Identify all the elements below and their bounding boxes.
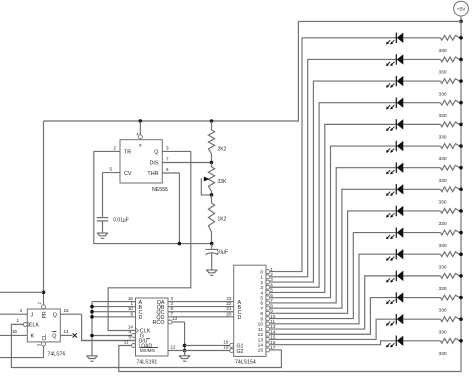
pin out2 74LS154 xyxy=(260,277,273,286)
wire LED13 to resistor xyxy=(403,297,440,299)
wire top rail to left xyxy=(44,21,462,121)
svg-text:330: 330 xyxy=(439,91,447,97)
svg-text:330: 330 xyxy=(439,221,447,227)
resistor R10 330 xyxy=(439,230,462,249)
wire out12 to LED row 13 xyxy=(270,298,397,335)
pin QC 74LS191 to C 74LS154 xyxy=(156,306,241,316)
pin out7 74LS154 xyxy=(260,303,273,312)
junction rail-2K2 xyxy=(210,119,214,123)
LED D13 xyxy=(386,292,403,304)
svg-text:13: 13 xyxy=(258,337,264,343)
resistor R8 330 xyxy=(439,187,462,206)
svg-text:TR: TR xyxy=(124,150,131,156)
svg-text:330: 330 xyxy=(439,48,447,54)
LED D9 xyxy=(386,206,403,218)
svg-text:330: 330 xyxy=(439,178,447,184)
svg-text:15: 15 xyxy=(258,348,264,354)
wire THR drop xyxy=(178,173,180,244)
LED D14 xyxy=(386,314,403,326)
wire PR stub left edge xyxy=(0,291,44,293)
svg-text:20: 20 xyxy=(226,311,232,316)
decoder 74LS154 U4 body xyxy=(234,265,266,356)
pin out5 74LS154 xyxy=(260,293,273,302)
LED D2 xyxy=(386,54,403,66)
junction rail row 14 xyxy=(459,317,463,321)
LED D1 xyxy=(386,33,403,45)
junction rail row 12 xyxy=(459,274,463,278)
counter 74LS191 U3 body xyxy=(136,298,169,356)
svg-text:7: 7 xyxy=(260,306,263,312)
resistor R1 330 xyxy=(439,35,462,54)
pin out15 74LS154 xyxy=(258,345,276,354)
resistor R3 330 xyxy=(439,79,462,98)
svg-text:2K2: 2K2 xyxy=(218,147,227,153)
svg-text:5: 5 xyxy=(128,334,131,339)
wire out4 to LED row 5 xyxy=(270,124,397,292)
junction RCO-G1 xyxy=(183,344,187,348)
wire out6 to LED row 7 xyxy=(270,168,397,303)
wire out8 to LED row 9 xyxy=(270,211,397,313)
svg-text:4: 4 xyxy=(260,290,263,296)
svg-text:1: 1 xyxy=(260,275,263,281)
wire LED4 to resistor xyxy=(403,102,440,104)
svg-text:D: D xyxy=(238,315,242,321)
svg-text:10: 10 xyxy=(258,322,264,328)
svg-text:3: 3 xyxy=(166,146,169,151)
svg-text:CLK: CLK xyxy=(29,323,40,329)
svg-text:6: 6 xyxy=(260,301,263,307)
junction rail row 6 xyxy=(459,144,463,148)
resistor R5 330 xyxy=(439,122,462,141)
junction +5V rail xyxy=(459,20,463,24)
pin TR NE555 xyxy=(94,146,131,156)
ground under C2 xyxy=(97,233,108,238)
svg-text:2: 2 xyxy=(113,146,116,151)
capacitor C1 10uF xyxy=(205,244,228,270)
junction rail row 4 xyxy=(459,101,463,105)
pin 4 bubble on NE555 xyxy=(136,133,142,139)
label NE555 xyxy=(152,187,168,193)
wire LED5 to resistor xyxy=(403,123,440,125)
ground RCO net xyxy=(179,351,190,362)
pin D 74LS191 xyxy=(92,311,143,321)
wire CL to left edge xyxy=(0,346,44,358)
svg-text:LOAD: LOAD xyxy=(139,344,153,350)
wire LED2 to resistor xyxy=(403,58,440,60)
svg-text:14: 14 xyxy=(258,342,264,348)
svg-text:DIS: DIS xyxy=(150,161,159,167)
svg-text:330: 330 xyxy=(439,156,447,162)
pin B 74LS191 xyxy=(92,301,143,311)
wire right +5V rail xyxy=(119,21,461,371)
svg-text:CV: CV xyxy=(124,171,132,177)
svg-text:5: 5 xyxy=(260,296,263,302)
resistor R4 330 xyxy=(439,100,462,119)
pin Q NE555 xyxy=(154,146,191,156)
svg-text:11: 11 xyxy=(258,327,263,333)
power +5V supply xyxy=(454,1,469,16)
potentiometer 33K xyxy=(201,163,227,195)
wire G1 enable xyxy=(185,339,244,349)
svg-text:RCO: RCO xyxy=(153,320,165,326)
resistor R2 330 xyxy=(439,57,462,76)
label 74LS76 xyxy=(48,352,66,358)
wire G2 enable xyxy=(185,345,244,355)
junction THR-TR xyxy=(178,242,182,246)
svg-text:+5V: +5V xyxy=(457,7,466,13)
junction cap10 node xyxy=(210,242,214,246)
wire clock feedback from decoder xyxy=(11,324,281,367)
pin out4 74LS154 xyxy=(260,288,273,297)
wire LED1 to resistor xyxy=(403,37,440,39)
svg-text:330: 330 xyxy=(439,308,447,314)
wire LED15 to resistor xyxy=(403,340,440,342)
LED D12 xyxy=(386,271,403,283)
label 74LS191 xyxy=(137,360,158,366)
svg-text:9: 9 xyxy=(130,311,133,316)
svg-text:330: 330 xyxy=(439,113,447,119)
junction rail row 8 xyxy=(459,188,463,192)
svg-text:14: 14 xyxy=(64,329,70,334)
svg-text:α: α xyxy=(139,143,142,148)
svg-text:11: 11 xyxy=(124,339,129,344)
svg-text:7: 7 xyxy=(166,157,169,162)
wire out1 to LED row 2 xyxy=(270,59,397,276)
wire LED8 to resistor xyxy=(403,188,440,190)
LED D4 xyxy=(386,98,403,110)
svg-text:J: J xyxy=(31,312,34,318)
pin C 74LS191 xyxy=(92,306,143,316)
resistor R14 330 xyxy=(439,317,462,336)
wire LED11 to resistor xyxy=(403,253,440,255)
pin Qbar 74LS76 xyxy=(52,329,72,339)
svg-text:2: 2 xyxy=(260,280,263,286)
pin out14 74LS154 xyxy=(258,340,276,349)
wire out0 to LED row 1 xyxy=(270,38,397,272)
resistor 2K2 xyxy=(208,121,226,163)
svg-text:74LS76: 74LS76 xyxy=(48,352,66,358)
pin RCO 74LS191 xyxy=(153,316,185,326)
resistor R9 330 xyxy=(439,209,462,228)
svg-text:K: K xyxy=(31,334,35,340)
svg-text:12: 12 xyxy=(258,332,264,338)
pin out6 74LS154 xyxy=(260,298,273,307)
svg-text:330: 330 xyxy=(439,200,447,206)
pin out13 74LS154 xyxy=(258,335,276,344)
svg-text:74LS191: 74LS191 xyxy=(137,360,158,366)
resistor R11 330 xyxy=(439,252,462,271)
resistor R15 330 xyxy=(439,338,462,357)
pin out9 74LS154 xyxy=(260,314,276,323)
pin A 74LS191 xyxy=(92,296,143,306)
wire LED6 to resistor xyxy=(403,145,440,147)
LED D15 xyxy=(386,336,403,348)
junction rail row 3 xyxy=(459,79,463,83)
wire out2 to LED row 3 xyxy=(270,81,397,282)
flip-flop 74LS76 U2 body xyxy=(27,309,60,342)
resistor R7 330 xyxy=(439,165,462,184)
LED D7 xyxy=(386,162,403,174)
pin K 74LS76 xyxy=(0,329,35,339)
wire out15 stub xyxy=(270,349,282,351)
svg-text:NE555: NE555 xyxy=(152,187,168,193)
junction rail row 7 xyxy=(459,166,463,170)
junction rail row 1 xyxy=(459,36,463,40)
resistor R6 330 xyxy=(439,144,462,163)
LED D8 xyxy=(386,184,403,196)
svg-text:6: 6 xyxy=(166,167,169,172)
svg-text:4: 4 xyxy=(19,308,22,313)
svg-text:Q: Q xyxy=(53,312,57,318)
svg-text:330: 330 xyxy=(439,135,447,141)
no-connect X on Qbar xyxy=(73,333,77,337)
svg-text:CL: CL xyxy=(42,334,48,341)
svg-text:Q: Q xyxy=(154,150,158,156)
wire out5 to LED row 6 xyxy=(270,146,397,298)
resistor R13 330 xyxy=(439,295,462,314)
resistor 1K2 xyxy=(208,195,226,244)
pin QB 74LS191 to B 74LS154 xyxy=(157,301,242,311)
junction RCO-G2 xyxy=(183,349,187,353)
pin out3 74LS154 xyxy=(260,282,273,291)
svg-text:330: 330 xyxy=(439,264,447,270)
pin QA 74LS191 to A 74LS154 xyxy=(157,296,242,306)
pin D/U 74LS191 xyxy=(82,334,150,344)
wire CV drop xyxy=(102,173,104,217)
junction rail row 11 xyxy=(459,252,463,256)
wire LED12 to resistor xyxy=(403,275,440,277)
svg-text:330: 330 xyxy=(439,70,447,76)
pin CLK 74LS76 xyxy=(11,318,39,328)
junction rail row 9 xyxy=(459,209,463,213)
pin MXMN 12 74LS191 xyxy=(168,345,185,351)
junction D gnd xyxy=(90,315,94,319)
wire 555 reset stem xyxy=(139,121,141,135)
LED D5 xyxy=(386,119,403,131)
ground under C1 xyxy=(206,270,217,275)
svg-text:13: 13 xyxy=(172,316,178,321)
svg-text:THR: THR xyxy=(147,171,158,177)
wire LED10 to resistor xyxy=(403,232,440,234)
wire Q555 to counter clock xyxy=(108,151,191,330)
label 74LS154 xyxy=(235,360,256,366)
pin out12 74LS154 xyxy=(258,329,276,338)
wire out9 to LED row 10 xyxy=(270,233,397,319)
svg-text:D: D xyxy=(139,315,143,321)
junction rail row 2 xyxy=(459,58,463,62)
wire left vcc drop to PR xyxy=(43,121,45,305)
ground ABCD xyxy=(86,356,97,361)
svg-text:74LS154: 74LS154 xyxy=(235,360,256,366)
pin out1 74LS154 xyxy=(260,272,273,281)
junction rail row 15 xyxy=(459,339,463,343)
wire Q to D/U xyxy=(82,314,136,340)
junction 555 vcc xyxy=(139,119,143,123)
pin DIS NE555 xyxy=(150,157,212,167)
LED D10 xyxy=(386,227,403,239)
svg-text:330: 330 xyxy=(439,329,447,335)
svg-text:10µF: 10µF xyxy=(217,250,229,256)
pin LOAD 74LS191 xyxy=(124,339,153,349)
pin PR 74LS76 xyxy=(37,302,48,319)
svg-text:12: 12 xyxy=(171,345,177,350)
wire out3 to LED row 4 xyxy=(270,103,397,288)
junction rail row 13 xyxy=(459,296,463,300)
wire ABCD ground bus xyxy=(91,302,93,356)
junction DIS node xyxy=(210,161,214,165)
svg-text:330: 330 xyxy=(439,243,447,249)
svg-text:19: 19 xyxy=(223,345,229,350)
svg-text:3: 3 xyxy=(260,285,263,291)
pin out0 74LS154 xyxy=(260,267,273,276)
svg-text:330: 330 xyxy=(439,286,447,292)
svg-text:33K: 33K xyxy=(218,179,228,185)
wire RCO drop xyxy=(184,322,186,351)
pin THR NE555 xyxy=(147,167,179,177)
wire LED3 to resistor xyxy=(403,80,440,82)
pin CL 74LS76 xyxy=(37,334,48,346)
wire TR net xyxy=(94,151,212,243)
wire LED9 to resistor xyxy=(403,210,440,212)
junction G gnd xyxy=(90,334,94,338)
wire out7 to LED row 8 xyxy=(270,189,397,308)
wire out11 to LED row 12 xyxy=(270,276,397,329)
op NE555 U1 body xyxy=(120,140,162,183)
wire out14 to LED row 15 xyxy=(270,341,397,345)
pin QD 74LS191 to D 74LS154 xyxy=(156,311,241,321)
pin out10 74LS154 xyxy=(258,319,276,328)
pin CLK 74LS191 xyxy=(128,324,151,334)
junction rail row 5 xyxy=(459,123,463,127)
svg-text:1: 1 xyxy=(16,318,19,323)
svg-text:9: 9 xyxy=(260,316,263,322)
junction C gnd xyxy=(90,310,94,314)
wire LED7 to resistor xyxy=(403,167,440,169)
junction pot wiper xyxy=(210,193,214,197)
svg-text:G2: G2 xyxy=(237,349,244,355)
svg-text:PR: PR xyxy=(42,311,48,318)
svg-text:0: 0 xyxy=(260,269,263,275)
LED D3 xyxy=(386,76,403,88)
svg-text:16: 16 xyxy=(12,329,18,334)
svg-text:5: 5 xyxy=(109,167,112,172)
junction PR tap xyxy=(42,291,46,295)
svg-text:8: 8 xyxy=(260,311,263,317)
svg-text:1K2: 1K2 xyxy=(218,217,227,223)
wire out10 to LED row 11 xyxy=(270,254,397,324)
LED D11 xyxy=(386,249,403,261)
svg-text:0.01µF: 0.01µF xyxy=(113,217,129,223)
pin G 74LS191 xyxy=(92,329,144,339)
capacitor C2 0.01uF xyxy=(97,217,129,233)
pin Q 74LS76 xyxy=(53,308,82,318)
wire LED14 to resistor xyxy=(403,318,440,320)
svg-text:Q: Q xyxy=(52,334,56,340)
pin out11 74LS154 xyxy=(258,324,276,333)
svg-text:4: 4 xyxy=(136,133,138,137)
pin CV NE555 xyxy=(103,167,132,177)
wire +5V stem xyxy=(460,16,462,21)
junction B gnd xyxy=(90,305,94,309)
svg-text:15: 15 xyxy=(64,308,70,313)
pin J 74LS76 xyxy=(0,308,34,318)
junction rail row 10 xyxy=(459,231,463,235)
LED D6 xyxy=(386,141,403,153)
pin out8 74LS154 xyxy=(260,309,273,318)
svg-text:330: 330 xyxy=(439,351,447,357)
resistor R12 330 xyxy=(439,273,462,292)
wire out13 to LED row 14 xyxy=(270,319,397,339)
